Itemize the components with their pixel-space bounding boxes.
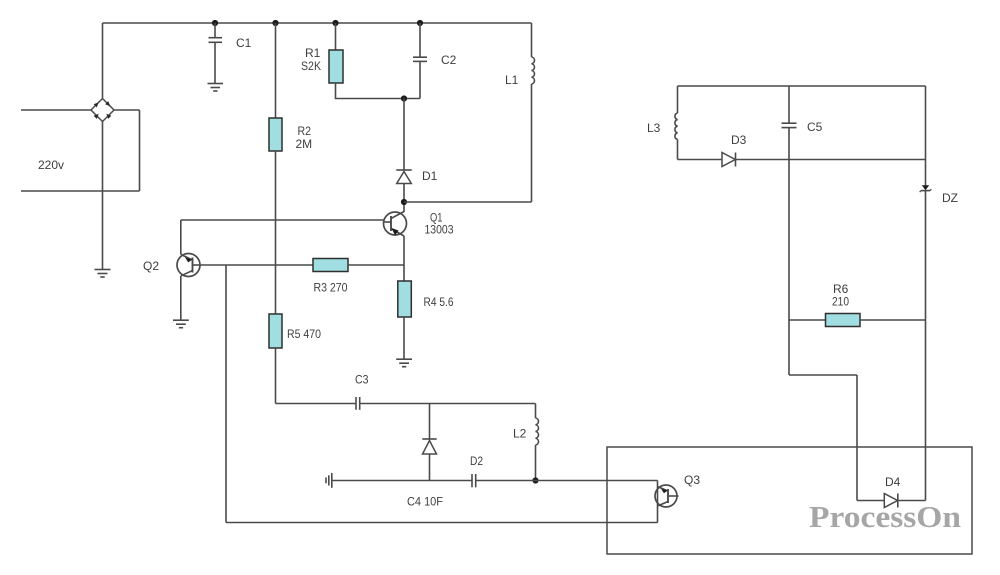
resistor R1 <box>329 50 343 83</box>
wire Q2 base to R3 <box>200 264 313 266</box>
transistor Q2 <box>177 254 200 277</box>
wire D2 branch top <box>429 404 431 440</box>
wire Q2 emitter down <box>180 276 182 320</box>
wire C3 right <box>360 403 536 405</box>
wire C5 bottom long <box>788 128 790 375</box>
resistor R2 <box>269 118 282 151</box>
svg-text:R3 270: R3 270 <box>314 281 348 295</box>
svg-text:L2: L2 <box>513 427 527 441</box>
diode D2 branch <box>422 439 436 454</box>
resistor R5 <box>269 314 282 348</box>
wire R3 to R4 node <box>348 264 404 266</box>
svg-text:13003: 13003 <box>425 223 454 237</box>
svg-text:220v: 220v <box>38 158 64 172</box>
wire D1 top <box>403 99 405 171</box>
node D1 top junction <box>401 95 407 101</box>
wire D4 left <box>857 500 884 502</box>
wire feedback drop <box>225 265 227 523</box>
svg-text:D3: D3 <box>731 133 747 147</box>
node Q1 collector junction <box>401 199 407 205</box>
svg-text:L1: L1 <box>505 73 519 87</box>
ground (C1) <box>208 84 224 92</box>
wire bridge top lead <box>102 23 104 98</box>
wire R6 right <box>860 319 926 321</box>
wire L2 top <box>535 404 537 419</box>
wire AC bottom stub <box>21 190 140 192</box>
svg-text:2M: 2M <box>296 137 313 151</box>
wire L3 top <box>677 86 679 113</box>
node C2 top junction <box>417 20 423 26</box>
svg-text:D2: D2 <box>470 454 483 468</box>
svg-text:S2K: S2K <box>301 59 321 73</box>
wire R5 bottom <box>275 348 277 404</box>
wire Q1 emitter to R4 <box>403 236 405 281</box>
wire Q1 base <box>181 219 384 221</box>
svg-text:210: 210 <box>832 295 849 309</box>
wire R4 bottom <box>403 317 405 359</box>
resistor R4 <box>398 281 412 317</box>
svg-text:DZ: DZ <box>942 191 958 205</box>
wire R6 left <box>789 319 826 321</box>
inductor L1 <box>532 57 535 84</box>
wire C5 branch to corner <box>789 374 857 376</box>
ground (C4 left, sideways) <box>326 473 332 488</box>
wire Q2 collector up <box>180 220 182 255</box>
wire C5 top <box>788 86 790 123</box>
svg-text:Q2: Q2 <box>143 259 159 273</box>
wire DZ top <box>925 86 927 186</box>
capacitor C1 <box>209 38 223 43</box>
transistor Q1 <box>384 212 407 237</box>
wire secondary top rail <box>678 85 926 87</box>
ground (source) <box>95 270 111 278</box>
svg-text:C3: C3 <box>355 373 369 387</box>
node L2 bottom junction <box>532 477 538 483</box>
capacitor C5 <box>782 123 797 127</box>
svg-text:D4: D4 <box>885 475 901 489</box>
node R1 top junction <box>332 20 338 26</box>
resistor R3 <box>313 259 348 272</box>
wire L1 top <box>531 23 533 57</box>
wire C4 right <box>476 480 658 482</box>
node R2 top junction <box>272 20 278 26</box>
svg-text:C4 10F: C4 10F <box>407 495 443 509</box>
wire top rail <box>103 22 532 24</box>
wire D2 branch bottom <box>429 454 431 481</box>
ground (Q2) <box>173 320 189 328</box>
inductor L3 <box>675 113 678 139</box>
svg-text:D1: D1 <box>422 169 438 183</box>
wire R2 top <box>275 23 277 118</box>
inductor L2 <box>536 418 539 445</box>
svg-text:C2: C2 <box>441 53 457 67</box>
diode D4 <box>884 494 898 508</box>
svg-text:R1: R1 <box>305 46 321 60</box>
wire Q3 left vertical <box>657 481 659 523</box>
svg-text:R4 5.6: R4 5.6 <box>424 295 454 309</box>
wire feedback bottom run <box>226 522 658 524</box>
transistor Q3 <box>655 485 679 507</box>
wire C4 left <box>332 480 472 482</box>
wire bridge right to loop <box>114 109 140 111</box>
wire corner down to D4 level <box>856 375 858 501</box>
wire L3 to D3 <box>678 159 723 161</box>
wire L1 bottom <box>531 84 533 202</box>
wire D4 right <box>898 500 926 502</box>
svg-text:C1: C1 <box>236 36 252 50</box>
wire D1 to Q1 <box>403 184 405 213</box>
wire bridge bottom lead <box>102 122 104 270</box>
node C1 top junction <box>212 20 218 26</box>
wire C2 bottom <box>419 61 421 98</box>
diode D1 <box>396 170 411 184</box>
bridge rectifier <box>91 99 114 122</box>
svg-text:R2: R2 <box>298 124 312 138</box>
svg-text:Q3: Q3 <box>684 473 700 487</box>
wire R2 to R5 <box>275 151 277 314</box>
ground (R4) <box>396 359 412 367</box>
capacitor C2 <box>413 57 427 61</box>
wire L3 bottom <box>677 139 679 159</box>
wire R1 bottom <box>336 83 421 99</box>
capacitor C3 <box>356 397 360 410</box>
wire C1 bottom <box>214 42 216 83</box>
svg-text:L3: L3 <box>647 121 661 135</box>
wire DZ bottom <box>925 191 927 501</box>
wire AC top stub <box>21 109 91 111</box>
wire L2 bottom <box>535 445 537 481</box>
wire C2 top <box>419 23 421 57</box>
wire collector node to L1 <box>404 201 532 203</box>
wire C1 top <box>214 23 216 38</box>
wire source right vertical <box>139 110 141 191</box>
svg-text:R5 470: R5 470 <box>287 327 321 341</box>
resistor R6 <box>826 314 861 327</box>
wire C3 left <box>276 403 356 405</box>
capacitor C4 <box>472 474 476 487</box>
wire R1 top <box>335 23 337 50</box>
svg-text:C5: C5 <box>807 120 823 134</box>
zener diode DZ <box>920 185 932 192</box>
wire D3 right <box>736 159 926 161</box>
output block box <box>607 447 972 554</box>
diode D3 <box>722 153 736 167</box>
